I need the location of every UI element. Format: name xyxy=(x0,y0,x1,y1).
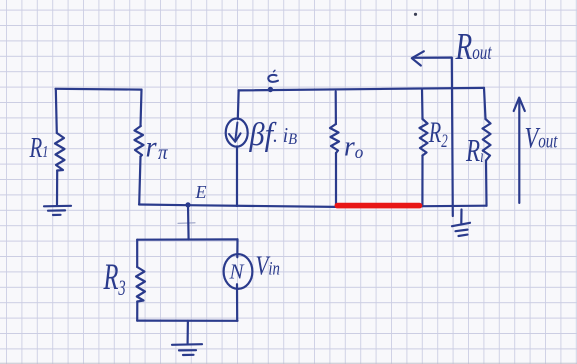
wire R2 bottom to bus xyxy=(421,156,423,207)
node C label xyxy=(268,70,278,82)
node E junction dot xyxy=(185,202,190,207)
wire r_o branch top xyxy=(335,92,337,125)
ground under Rout probe xyxy=(452,210,470,237)
r_pi value label xyxy=(146,131,169,164)
current source U1 circle xyxy=(226,119,248,147)
wire R2 branch top xyxy=(421,89,424,119)
Rout arrow (pointing left) xyxy=(412,51,452,65)
wire top-left horizontal (R1 top to r_pi top) xyxy=(56,88,142,91)
wire current source branch top xyxy=(237,90,240,119)
R3 value label xyxy=(103,256,126,301)
wire collector bus (top rail) xyxy=(239,88,484,91)
wire Rout probe vertical xyxy=(452,58,453,216)
resistor R2 xyxy=(420,119,428,156)
Vin value label xyxy=(256,251,280,281)
wire input loop top horizontal xyxy=(137,238,237,241)
wire emitter bus (node E horizontal rail) xyxy=(139,205,487,207)
wire RL bottom to bus xyxy=(485,161,488,206)
R1 value label xyxy=(29,132,49,164)
Vout label xyxy=(525,120,559,154)
wire input loop left vertical bottom xyxy=(136,302,138,321)
beta·iB value label xyxy=(249,116,298,152)
current source arrow (downward) xyxy=(229,123,241,142)
Vout arrow (pointing up) xyxy=(514,98,525,203)
RL value label xyxy=(465,133,484,169)
resistor R3 xyxy=(136,267,145,302)
wire input loop left vertical top xyxy=(136,240,138,267)
scanner bottom edge shading xyxy=(0,363,577,364)
resistor r_pi xyxy=(135,126,144,157)
Vin sine squiggle xyxy=(229,260,245,284)
stray ink speck xyxy=(414,13,417,16)
wire input loop bottom horizontal xyxy=(137,320,237,322)
resistor r_o xyxy=(330,124,339,153)
wire current source bottom to emitter bus xyxy=(236,146,238,206)
resistor RL xyxy=(483,119,491,161)
node E label xyxy=(195,182,207,202)
wire R1 branch vertical top xyxy=(56,89,57,133)
wire r_o bottom to bus xyxy=(335,153,337,207)
wire RL branch top corner xyxy=(484,88,486,119)
wire node E down to input loop xyxy=(187,205,190,240)
source Vin circle xyxy=(224,254,253,289)
wire r_pi bottom to emitter bus xyxy=(139,157,140,205)
red highlight segment on emitter bus xyxy=(337,203,419,209)
node C junction dot xyxy=(268,87,273,92)
ground under input loop xyxy=(172,344,202,355)
ground under R1 xyxy=(44,206,71,215)
svg-text:N: N xyxy=(229,260,245,284)
Rout label xyxy=(455,26,493,68)
wire R1 bottom to ground xyxy=(56,171,58,205)
stray pen dash under node E xyxy=(178,222,195,225)
wire Vin bottom to loop xyxy=(236,284,238,321)
resistor R1 xyxy=(55,133,65,171)
svg-text:E: E xyxy=(195,182,207,202)
R2 value label xyxy=(428,115,448,152)
r_o value label xyxy=(344,131,363,163)
wire input loop right vertical top xyxy=(236,239,238,257)
wire ground stub under input loop xyxy=(187,321,189,343)
wire r_pi branch vertical top xyxy=(141,90,142,126)
